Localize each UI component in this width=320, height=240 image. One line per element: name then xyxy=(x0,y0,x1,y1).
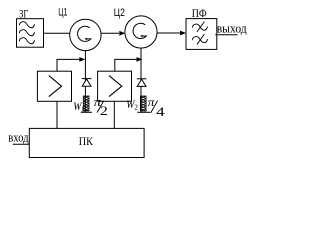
amp2 arrowhead xyxy=(137,57,143,62)
svg-text:вход: вход xyxy=(8,131,29,145)
arrow into C2 xyxy=(119,31,125,36)
generator wave 3 xyxy=(19,38,34,44)
input wire xyxy=(13,143,30,145)
output wire under vyhod xyxy=(215,34,237,36)
wire C1 to C2 xyxy=(101,32,119,34)
generator wave 1 xyxy=(19,22,34,28)
diode VD1 cathode bar xyxy=(82,78,92,80)
diode VD2 triangle xyxy=(137,79,146,86)
amp2 bottom wire xyxy=(113,101,115,128)
generator ZG box xyxy=(17,19,44,48)
PF wave 1 xyxy=(192,24,207,30)
wire C2 to PF xyxy=(157,32,180,34)
diode VD1 triangle xyxy=(82,79,91,86)
amplifier A2 box xyxy=(98,71,132,101)
pi/2 slash xyxy=(97,101,104,113)
PF wave 2 xyxy=(192,37,207,43)
stub 2 short-circuit bar xyxy=(137,111,150,113)
circulator C1 circle xyxy=(70,19,101,50)
generator wave 2 xyxy=(19,30,34,36)
circulator C2 arrow xyxy=(133,23,146,38)
control unit PK box xyxy=(29,128,144,157)
amplifier A1 box xyxy=(37,71,71,101)
svg-text:выход: выход xyxy=(217,21,247,36)
svg-text:Ц2: Ц2 xyxy=(114,7,125,19)
diode VD2 cathode bar xyxy=(137,78,147,80)
circulator C2 circle xyxy=(125,16,157,48)
stub 1 short-circuit bar xyxy=(81,111,92,113)
pi/4 slash xyxy=(151,101,158,113)
svg-text:ПФ: ПФ xyxy=(192,6,207,20)
amplifier A1 chevron xyxy=(49,76,62,97)
stub 2 vertical line xyxy=(140,48,142,112)
svg-text:Ц1: Ц1 xyxy=(58,6,67,18)
stub 1 vertical line xyxy=(84,51,86,112)
amp1 output wire with arrow xyxy=(57,59,80,71)
svg-text:ЗГ: ЗГ xyxy=(19,7,28,21)
amp1 bottom wire xyxy=(56,101,58,128)
amp2 output wire with arrow xyxy=(115,59,137,71)
band-pass filter PF box xyxy=(186,19,217,50)
transmission line W1 hatch xyxy=(83,96,89,111)
arrow into PF xyxy=(180,31,186,36)
svg-text:2: 2 xyxy=(134,103,138,112)
svg-text:4: 4 xyxy=(156,105,166,119)
circulator C1 arrow xyxy=(78,26,91,41)
svg-text:1: 1 xyxy=(81,105,85,114)
wire ZG to C1 xyxy=(44,32,70,34)
PF wave 2 slash xyxy=(197,34,204,44)
PF wave 1 slash xyxy=(197,22,204,32)
transmission line W2 hatch xyxy=(140,96,146,111)
svg-text:ПК: ПК xyxy=(79,136,93,148)
svg-text:2: 2 xyxy=(100,104,108,118)
amp1 arrowhead xyxy=(79,57,85,62)
amplifier A2 chevron xyxy=(109,76,122,97)
